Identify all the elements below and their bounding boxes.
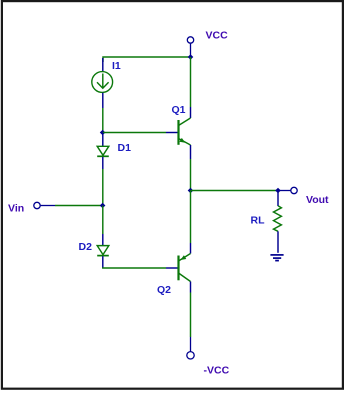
wire (190, 57, 192, 107)
diode D2 (97, 234, 109, 268)
terminal -VCC (187, 337, 194, 359)
diode D1 (97, 133, 109, 169)
resistor RL (274, 191, 282, 253)
ground (270, 255, 283, 261)
wire (102, 206, 104, 235)
wire (103, 57, 191, 62)
svg-text:Q2: Q2 (157, 284, 171, 296)
svg-text:Vout: Vout (306, 194, 329, 206)
svg-text:I1: I1 (112, 60, 121, 72)
wire (191, 190, 279, 192)
svg-text:Vin: Vin (8, 203, 24, 215)
svg-text:D2: D2 (79, 241, 93, 253)
current source I1 (92, 58, 113, 108)
terminal Vout (278, 187, 297, 193)
svg-text:VCC: VCC (206, 30, 229, 42)
transistor Q2 (166, 243, 191, 293)
svg-text:-VCC: -VCC (204, 365, 230, 377)
junction (275, 188, 281, 194)
terminal Vin (34, 202, 55, 208)
wire (102, 108, 104, 133)
terminal VCC (187, 37, 193, 57)
wire (103, 266, 166, 269)
wire (190, 159, 192, 191)
junction (100, 203, 106, 209)
transistor Q1 (166, 107, 191, 159)
wire (103, 132, 166, 134)
wire (102, 169, 104, 206)
svg-text:D1: D1 (118, 142, 132, 154)
svg-text:RL: RL (251, 215, 266, 227)
junction (188, 188, 194, 194)
junction (100, 130, 106, 136)
junction (188, 54, 194, 60)
wire (190, 293, 192, 338)
wire (55, 205, 103, 207)
svg-text:Q1: Q1 (172, 104, 186, 116)
wire (190, 191, 192, 244)
